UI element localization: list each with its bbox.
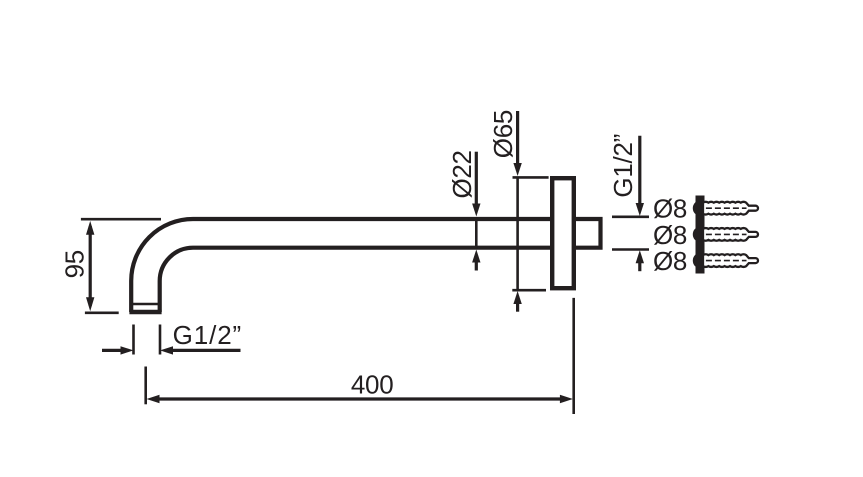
dim G1/2 right: lower tail	[638, 263, 641, 271]
dim 400: arrow right	[560, 395, 573, 403]
dim diam65: arrow down	[513, 163, 521, 176]
screw 2 centerline	[706, 233, 747, 235]
dim G1/2 right: arrow down	[636, 203, 644, 216]
shower arm inner contour	[160, 248, 553, 312]
screw 2 thread	[703, 228, 758, 241]
dim G1/2 bottom: left tail line	[102, 349, 122, 352]
screw 1 thread	[703, 202, 758, 215]
wall flange	[552, 178, 574, 288]
dim 95: dimension line	[89, 226, 92, 306]
dim diam65: upper dimension line	[516, 111, 519, 164]
dim G1/2 bottom: extension line right	[159, 325, 162, 355]
dim diam22: arrow up	[472, 250, 480, 263]
svg-text:95: 95	[60, 250, 90, 278]
dim diam22: arrow down	[472, 204, 480, 217]
screw 3 centerline	[706, 260, 747, 262]
svg-text:Ø8: Ø8	[653, 246, 687, 276]
svg-text:G1/2”: G1/2”	[173, 320, 243, 350]
screw 1 centerline	[706, 207, 747, 209]
dim diam22: upper dimension line	[475, 152, 478, 205]
dim 95: bottom extension line	[85, 311, 119, 314]
dim 95: arrow up	[86, 221, 94, 235]
dim G1/2 right: arrow up	[636, 250, 644, 263]
svg-text:Ø65: Ø65	[488, 110, 518, 158]
dim G1/2 right: bottom extension line	[612, 248, 649, 251]
dim 95: top extension line	[81, 218, 161, 221]
dim diam65: arrow up	[513, 291, 521, 304]
dim diam65: top extension line	[513, 176, 549, 179]
dim G1/2 right: top extension line	[612, 216, 649, 219]
dim G1/2 bottom: extension line left	[132, 325, 135, 355]
dim diam22: crossing line	[475, 217, 478, 249]
dim 400: arrow left	[147, 395, 160, 403]
wall connector stub G1/2	[574, 219, 601, 248]
svg-text:G1/2”: G1/2”	[608, 134, 638, 198]
svg-text:400: 400	[351, 370, 393, 400]
screw 3 head	[693, 253, 705, 267]
dim 400: right extension line	[572, 298, 575, 414]
dim G1/2 bottom: right tail line	[173, 349, 241, 352]
dim diam65: lower tail	[516, 304, 519, 312]
dim G1/2 bottom: arrow left	[160, 346, 173, 354]
dim 400: left extension line	[144, 367, 147, 405]
svg-text:Ø22: Ø22	[447, 150, 477, 198]
shower arm outer contour	[131, 219, 553, 312]
dim 95: arrow down	[86, 297, 94, 311]
dim diam22: lower tail	[475, 262, 478, 271]
dim diam65: bottom extension line	[512, 289, 546, 292]
dim 400: dimension line	[158, 397, 562, 400]
arm end thread line	[132, 303, 160, 306]
dim G1/2 bottom: arrow right	[121, 346, 134, 354]
dim diam65: crossing line	[516, 177, 519, 289]
screw head bar	[696, 196, 705, 274]
dim G1/2 right: upper dimension line	[638, 136, 641, 204]
screw 1 head	[693, 201, 705, 215]
arm end cap	[129, 310, 161, 314]
screw 2 head	[693, 227, 705, 241]
screw 3 thread	[703, 254, 758, 267]
